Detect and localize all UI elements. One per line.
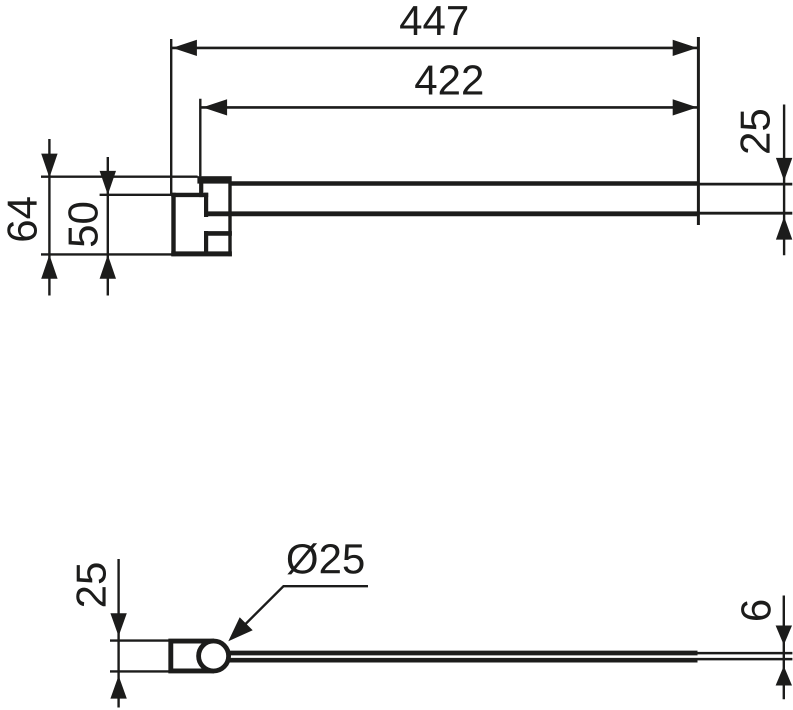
extension line top (25 bottom view) — [110, 639, 169, 641]
towel bar plan view: thin end bottom — [698, 658, 793, 661]
dimension 6 label — [741, 601, 771, 620]
leader arrowhead — [228, 617, 252, 641]
bracket: notch left vertical (lower) — [204, 231, 208, 253]
extension line top (50, wall plate top) — [100, 194, 172, 196]
towel bar plan view: top line — [226, 651, 698, 656]
dimension 50 line — [100, 157, 116, 296]
bracket plan view rectangle — [171, 641, 214, 671]
extension line right (447/422, bar end cap) — [697, 37, 700, 225]
bracket: notch left vertical (upper) — [204, 193, 208, 217]
dimension 25 line (bottom view) — [110, 559, 126, 708]
dimension 25 label (bottom view, left) — [76, 563, 106, 606]
bracket: vertical below tab — [199, 183, 203, 197]
dimension 6 line — [776, 596, 792, 700]
label diameter 25 — [287, 543, 363, 574]
pivot circle Ø25 — [199, 641, 229, 671]
leader line for Ø25 — [231, 586, 368, 638]
bracket: wall plate bottom edge — [171, 251, 232, 256]
bracket: wall plate top edge — [171, 193, 208, 197]
towel bar side view: top edge — [229, 181, 699, 186]
towel bar side view: bottom edge (continues as notch bottom) — [204, 211, 698, 216]
extension line bottom (25 bottom view) — [110, 670, 169, 672]
towel bar plan view: bottom line — [226, 658, 698, 663]
dimension 25 label (bar height, right) — [740, 110, 770, 153]
bracket: right vertical edge — [228, 183, 231, 256]
towel bar side view: thin end section bottom — [698, 212, 792, 215]
dimension 447 line — [172, 40, 699, 56]
dimension 64 label — [7, 197, 37, 240]
bracket: lower square top edge — [204, 231, 232, 236]
dimension 64 line — [41, 139, 57, 296]
towel bar side view: thin end section top — [698, 183, 792, 186]
dimension 50 label — [68, 203, 98, 246]
extension line top (64, tab top) — [41, 175, 198, 177]
towel bar plan view: thin end top — [698, 652, 793, 655]
bracket: wall plate left edge — [171, 193, 175, 256]
extension line left (422, to bracket tab) — [199, 99, 201, 177]
dimension 422 line — [201, 99, 698, 115]
dimension 422 label — [415, 65, 482, 94]
extension line left (447, from bracket left edge) — [170, 39, 172, 195]
dimension 25 line (right) — [776, 105, 792, 256]
dimension 447 label — [400, 6, 467, 35]
bracket tab (top lip) — [197, 176, 231, 183]
extension line bottom (64/50, wall plate bottom) — [41, 253, 172, 255]
